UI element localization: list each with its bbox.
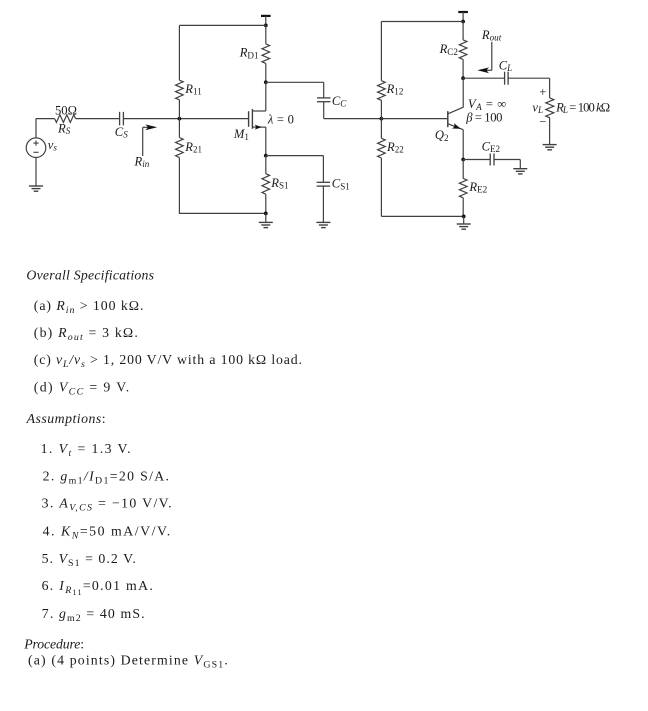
svg-text:R12: R12 xyxy=(386,82,404,97)
svg-text:λ = 0: λ = 0 xyxy=(267,112,294,126)
svg-text:CS: CS xyxy=(115,125,128,140)
svg-text:Assumptions:: Assumptions: xyxy=(26,411,106,426)
svg-text:50Ω: 50Ω xyxy=(55,104,77,118)
svg-text:(b) Rout = 3 kΩ.: (b) Rout = 3 kΩ. xyxy=(34,325,138,343)
svg-text:Procedure:: Procedure: xyxy=(23,637,84,652)
svg-text:7. gm2 = 40 mS.: 7. gm2 = 40 mS. xyxy=(42,606,145,624)
svg-text:(a) (4 points) Determine VGS: (a) (4 points) Determine VGS1. xyxy=(28,653,228,671)
svg-text:RE2: RE2 xyxy=(468,180,487,195)
svg-text:RC2: RC2 xyxy=(439,42,459,57)
svg-text:Q2: Q2 xyxy=(435,128,449,143)
svg-text:CC: CC xyxy=(332,94,347,109)
svg-text:Overall Specifications: Overall Specifications xyxy=(26,267,154,282)
svg-text:1. Vt = 1.3 V.: 1. Vt = 1.3 V. xyxy=(41,441,131,459)
svg-text:4. KN=50 mA/V/V.: 4. KN=50 mA/V/V. xyxy=(43,523,171,541)
svg-text:R11: R11 xyxy=(184,82,201,97)
svg-text:Rout: Rout xyxy=(481,28,502,43)
svg-text:CL: CL xyxy=(499,58,512,73)
svg-text:(a) Rin > 100 kΩ.: (a) Rin > 100 kΩ. xyxy=(34,298,144,316)
svg-text:RS1: RS1 xyxy=(270,176,288,191)
svg-text:R22: R22 xyxy=(386,140,404,155)
svg-text:β = 100: β = 100 xyxy=(465,110,502,124)
svg-text:+: + xyxy=(539,85,546,99)
svg-text:RL = 100 kΩ: RL = 100 kΩ xyxy=(555,100,610,115)
svg-text:RS: RS xyxy=(57,121,71,136)
svg-text:2. gm1/ID1=20 S/A.: 2. gm1/ID1=20 S/A. xyxy=(43,468,169,486)
svg-text:(d) VCC = 9 V.: (d) VCC = 9 V. xyxy=(34,380,129,398)
svg-text:Rin: Rin xyxy=(134,154,150,169)
svg-text:3. AV,CS = −10 V/V.: 3. AV,CS = −10 V/V. xyxy=(42,495,172,513)
svg-text:(c) vL/vs > 1, 200 V/V with a: (c) vL/vs > 1, 200 V/V with a 100 kΩ loa… xyxy=(34,352,302,370)
svg-text:5. VS1 = 0.2 V.: 5. VS1 = 0.2 V. xyxy=(42,551,136,569)
svg-text:vL: vL xyxy=(532,100,543,115)
svg-text:RD1: RD1 xyxy=(239,46,259,61)
svg-text:CS1: CS1 xyxy=(332,177,350,192)
svg-text:R21: R21 xyxy=(184,140,202,155)
svg-text:−: − xyxy=(539,115,546,129)
svg-text:CE2: CE2 xyxy=(482,140,501,155)
svg-text:M1: M1 xyxy=(233,127,249,142)
svg-text:vs: vs xyxy=(48,138,58,153)
svg-text:6. IR11=0.01 mA.: 6. IR11=0.01 mA. xyxy=(42,578,153,597)
